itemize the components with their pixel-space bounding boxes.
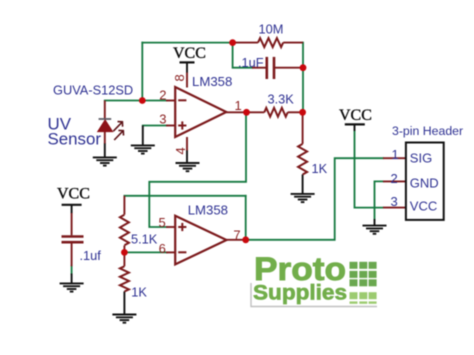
svg-text:LM358: LM358 [188,202,228,217]
svg-text:Sensor: Sensor [48,130,102,149]
svg-text:LM358: LM358 [192,74,232,89]
svg-text:6: 6 [159,241,166,256]
svg-text:.1uF: .1uF [238,55,264,70]
svg-text:3: 3 [159,111,166,126]
svg-text:.1uf: .1uf [80,248,102,263]
svg-text:10M: 10M [259,22,284,37]
svg-text:GUVA-S12SD: GUVA-S12SD [53,83,133,98]
svg-text:1K: 1K [312,161,328,176]
svg-text:2: 2 [159,87,166,102]
svg-text:4: 4 [173,147,188,154]
svg-text:SIG: SIG [410,150,432,165]
svg-text:GND: GND [410,176,439,191]
svg-text:3: 3 [391,194,398,209]
svg-text:1: 1 [392,147,399,162]
svg-text:1: 1 [235,98,242,113]
svg-text:1K: 1K [131,284,147,299]
svg-text:VCC: VCC [339,107,372,124]
svg-text:3-pin Header: 3-pin Header [392,124,463,138]
svg-text:VCC: VCC [410,199,437,214]
svg-text:8: 8 [172,74,187,81]
svg-text:VCC: VCC [173,45,206,62]
svg-text:7: 7 [233,228,240,243]
svg-text:3.3K: 3.3K [268,92,295,107]
svg-text:VCC: VCC [57,186,90,203]
svg-text:5.1K: 5.1K [131,231,158,246]
svg-text:2: 2 [391,171,398,186]
svg-text:Supplies: Supplies [253,281,347,305]
svg-text:5: 5 [159,215,166,230]
